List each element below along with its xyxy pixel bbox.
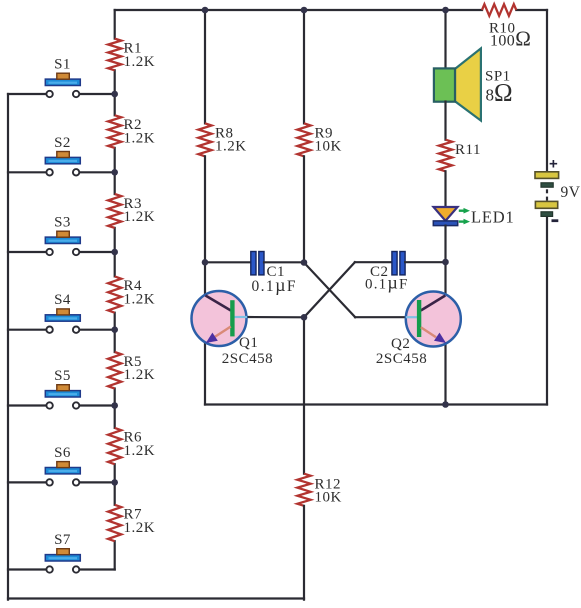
svg-text:S1: S1 <box>54 57 71 73</box>
svg-text:1.2K: 1.2K <box>124 292 156 308</box>
svg-text:S5: S5 <box>54 368 71 384</box>
node switch row 6 junction <box>111 479 118 486</box>
svg-text:1.2K: 1.2K <box>215 139 247 155</box>
svg-text:S2: S2 <box>54 135 71 151</box>
svg-text:S4: S4 <box>54 292 71 308</box>
speaker SP1 <box>434 48 513 120</box>
node switch row 1 junction <box>111 91 118 98</box>
svg-text:2SC458: 2SC458 <box>222 351 273 367</box>
LED LED1 <box>433 207 514 226</box>
wire LED1 to node C <box>444 226 446 262</box>
svg-text:LED1: LED1 <box>471 207 515 226</box>
wire left rail <box>7 94 9 600</box>
svg-text:S6: S6 <box>54 445 71 461</box>
svg-text:1.2K: 1.2K <box>124 209 156 225</box>
switch S3 <box>8 215 115 256</box>
node C (C2-LED column) <box>442 259 449 266</box>
wire node B to R12 <box>303 317 305 473</box>
resistor R2 <box>108 115 155 148</box>
node Q2 emitter / rail <box>442 401 449 408</box>
node switch row 3 junction <box>111 249 118 256</box>
battery B1 9V <box>535 156 581 223</box>
resistor R9 <box>297 123 341 156</box>
transistor Q2 <box>376 292 461 368</box>
wire Q2 collector lead <box>444 262 446 296</box>
switch S5 <box>8 368 115 409</box>
wire R9 column top <box>303 10 305 123</box>
capacitor C1 <box>205 252 304 295</box>
resistor R11 <box>439 140 481 172</box>
wire R8 to C1 node <box>204 156 206 262</box>
resistor R1 <box>108 39 155 71</box>
svg-text:Q2: Q2 <box>391 336 410 352</box>
capacitor C2 <box>355 252 446 293</box>
wire right rail (battery bottom) <box>546 217 548 405</box>
svg-text:R11: R11 <box>455 142 481 158</box>
svg-text:9V: 9V <box>561 184 581 201</box>
svg-text:1.2K: 1.2K <box>124 131 156 147</box>
wire node A diagonal to Q2 base <box>304 263 355 318</box>
wire R9 to node A <box>303 156 305 262</box>
node switch row 2 junction <box>111 169 118 176</box>
switch S6 <box>8 445 115 486</box>
svg-text:1.2K: 1.2K <box>124 443 156 459</box>
wire Q1 emitter lead <box>204 341 206 405</box>
resistor R4 <box>108 276 155 312</box>
wire R11 to LED1 <box>444 171 446 207</box>
svg-text:0.1µF: 0.1µF <box>252 275 297 295</box>
svg-text:Q1: Q1 <box>239 335 258 351</box>
node switch row 4 junction <box>111 326 118 333</box>
wire Q1 collector lead <box>204 262 206 296</box>
wire top supply rail <box>115 9 482 11</box>
resistor R5 <box>108 352 155 389</box>
resistor R6 <box>108 428 155 464</box>
svg-text:1.2K: 1.2K <box>124 520 156 536</box>
wire top to speaker <box>444 10 446 69</box>
svg-text:S3: S3 <box>54 215 71 231</box>
switch S4 <box>8 292 115 333</box>
svg-text:1.2K: 1.2K <box>124 54 156 70</box>
switch S7 <box>8 532 115 573</box>
svg-text:10K: 10K <box>315 139 342 155</box>
wire R12 to bottom rail <box>303 506 305 600</box>
wire R8 column top <box>204 10 206 123</box>
node top rail / R8 <box>202 7 209 14</box>
svg-text:10K: 10K <box>315 489 342 505</box>
wire Q2 emitter lead <box>444 342 446 405</box>
svg-text:+: + <box>549 156 558 173</box>
resistor R7 <box>108 505 155 541</box>
transistor Q1 <box>192 291 274 367</box>
wire Q1 base line <box>247 316 305 318</box>
node C1 left / R8 <box>202 259 209 266</box>
switch S1 <box>8 57 115 98</box>
resistor R3 <box>108 194 155 228</box>
wire speaker to R11 <box>444 102 446 140</box>
resistor R8 <box>198 123 246 156</box>
switch S2 <box>8 135 115 176</box>
wire right rail (battery top) <box>546 10 548 172</box>
wire emitter rail <box>205 403 547 405</box>
node A (R9-C1-Q2 base) <box>301 259 308 266</box>
node top rail / speaker <box>442 7 449 14</box>
wire bottom return rail <box>8 597 304 599</box>
node switch row 5 junction <box>111 402 118 409</box>
svg-text:2SC458: 2SC458 <box>376 351 427 367</box>
svg-text:1.2K: 1.2K <box>124 367 156 383</box>
resistor R10 <box>482 4 531 50</box>
resistor R12 <box>297 474 341 506</box>
svg-text:S7: S7 <box>54 532 71 548</box>
wire node B diagonal to C2 <box>304 262 355 317</box>
node top rail / R9 <box>301 7 308 14</box>
wire switch ladder column <box>114 10 116 39</box>
node B (Q1 base-C2-R12) <box>301 314 308 321</box>
